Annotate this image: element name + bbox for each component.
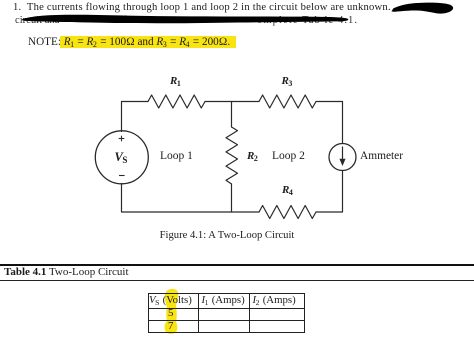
wire top-left segment xyxy=(122,102,149,132)
resistor R3 xyxy=(259,95,316,108)
resistor R1 xyxy=(148,95,205,108)
value label R4 xyxy=(282,184,293,196)
wire bottom-left segment xyxy=(122,184,260,213)
NOTE line with yellow highlight xyxy=(60,36,236,48)
wire top-middle segment xyxy=(205,101,259,103)
redaction scribble line 2 xyxy=(14,11,364,27)
redaction scribble line 1 (top right) xyxy=(385,0,474,20)
value label R3 xyxy=(282,75,293,87)
figure caption xyxy=(0,230,454,241)
wire middle branch top xyxy=(231,102,233,128)
table caption rules xyxy=(0,264,474,266)
value label VS xyxy=(115,150,128,165)
node label Loop 1 xyxy=(160,150,193,162)
resistor R2 xyxy=(226,127,238,184)
node label Loop 2 xyxy=(272,150,305,162)
value label Ammeter xyxy=(360,150,403,162)
data table xyxy=(148,293,306,333)
line 2: redacted sentence fragments xyxy=(15,15,59,26)
wire middle branch bottom xyxy=(231,184,233,212)
voltage source VS (circle symbol) xyxy=(95,131,148,184)
wire bottom-right segment xyxy=(316,171,343,213)
value label R1 xyxy=(170,75,181,87)
ammeter (circle symbol) xyxy=(329,144,356,171)
resistor R4 xyxy=(259,206,316,219)
VS polarity marks + and - xyxy=(110,130,134,180)
wire top-right segment xyxy=(316,102,343,144)
ammeter current arrow xyxy=(342,147,344,162)
line 1: problem statement xyxy=(13,2,474,13)
yellow highlighter swath over first data column xyxy=(160,286,186,338)
value label R2 xyxy=(247,150,258,162)
